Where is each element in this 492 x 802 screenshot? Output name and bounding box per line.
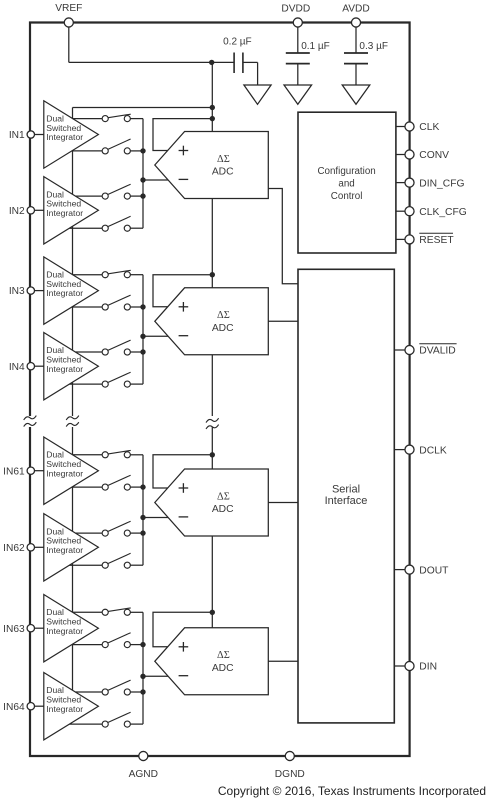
wire ADC2 + input from VREF (153, 275, 212, 307)
copyright note (218, 784, 486, 798)
wire switch output bus (ADC2) (142, 275, 144, 384)
wire config to pin RESET (396, 238, 410, 240)
svg-text:Integrator: Integrator (46, 288, 83, 298)
svg-text:ΔΣ: ΔΣ (217, 154, 230, 165)
svg-text:ADC: ADC (212, 663, 234, 674)
junction bus taps (ADC3) (140, 484, 145, 535)
wire pin IN4 to integrator (31, 365, 44, 367)
wire ADC1 + input from VREF (153, 119, 212, 151)
wire ADC4 + input from VREF (153, 612, 212, 647)
pin IN63 (3, 624, 34, 635)
wire switch output bus (ADC4) (142, 612, 144, 724)
svg-text:Integrator: Integrator (46, 704, 83, 714)
pin DCLK (405, 445, 447, 456)
pin DOUT (405, 565, 449, 576)
wire VREF distribution to integrators (73, 107, 213, 109)
switch S3b (open) (72, 475, 143, 490)
op-amp dual switched integrator IN3 (44, 257, 99, 324)
pin CONV (405, 150, 449, 161)
pin IN62 (3, 543, 34, 554)
pin RESET (405, 233, 454, 246)
svg-text:DVDD: DVDD (281, 3, 310, 14)
svg-text:IN64: IN64 (3, 702, 25, 713)
op-amp dual switched integrator IN62 (44, 514, 99, 581)
svg-text:Configuration: Configuration (317, 166, 375, 177)
ground (0.2 uF) (244, 85, 271, 104)
switch S2d (open) (69, 372, 143, 387)
wire serial interface to pin DCLK (394, 449, 409, 451)
pin VREF (55, 3, 82, 27)
wire pin IN64 to integrator (31, 705, 44, 707)
switch S2c (open) (75, 340, 143, 355)
svg-text:Integrator: Integrator (46, 545, 83, 555)
svg-text:ADC: ADC (212, 167, 234, 178)
switch S3c (open) (75, 521, 143, 536)
pin IN2 (9, 206, 35, 217)
block Configuration and Control (298, 112, 396, 253)
wire ADC3 output to serial interface (268, 502, 298, 504)
switch S3d (open) (69, 553, 143, 568)
pin IN1 (9, 130, 35, 141)
wire serial interface to pin DVALID (394, 349, 409, 351)
svg-text:ADC: ADC (212, 323, 234, 334)
wire pin IN2 to integrator (31, 209, 44, 211)
pin DVALID (405, 344, 457, 357)
switch S1d (open) (69, 216, 143, 231)
svg-text:DCLK: DCLK (419, 445, 447, 456)
op-amp U3 delta-sigma ADC (155, 469, 268, 536)
svg-text:Serial: Serial (332, 484, 360, 496)
svg-text:DOUT: DOUT (419, 565, 449, 576)
svg-text:RESET: RESET (419, 235, 454, 246)
pin AGND (129, 751, 158, 780)
junction bus taps (ADC2) (140, 304, 145, 354)
switch S4c (open) (75, 680, 143, 695)
op-amp dual switched integrator IN2 (44, 177, 99, 244)
wire pin IN3 to integrator (31, 290, 44, 292)
op-amp dual switched integrator IN4 (44, 333, 99, 400)
wire VREF pin drop (68, 23, 70, 63)
wire ADC2 - input from switch bus (143, 335, 168, 337)
wire pin IN61 to integrator (31, 470, 44, 472)
wire pin IN1 to integrator (31, 134, 44, 136)
break mark left border (24, 416, 37, 427)
wire integrator feed column (upper segment) (72, 108, 74, 417)
svg-text:Integrator: Integrator (46, 208, 83, 218)
svg-text:Integrator: Integrator (46, 626, 83, 636)
switch S2a (closed) (73, 270, 143, 277)
switch S3a (closed) (73, 450, 143, 457)
op-amp dual switched integrator IN1 (44, 101, 99, 168)
svg-text:and: and (338, 179, 354, 190)
wire VREF horizontal rail (69, 61, 234, 63)
wire integrator feed column (lower segment) (72, 427, 74, 690)
junction VREF rail / bypass cap (209, 60, 214, 65)
wire serial interface to pin DOUT (394, 569, 409, 571)
wire ADC4 - input from switch bus (143, 675, 168, 677)
op-amp dual switched integrator IN61 (44, 437, 99, 504)
wire switch output bus (ADC3) (142, 455, 144, 565)
op-amp U4 delta-sigma ADC (155, 628, 268, 695)
wire config to pin DIN_CFG (396, 182, 410, 184)
pin IN61 (3, 466, 34, 477)
break mark feed column (66, 416, 79, 427)
wire VREF center drop (upper segment) (211, 62, 213, 416)
svg-text:DIN_CFG: DIN_CFG (419, 178, 464, 189)
break mark VREF center drop (206, 418, 219, 429)
wire config to pin CLK (396, 126, 410, 128)
svg-text:ΔΣ: ΔΣ (217, 491, 230, 502)
junction VREF drop / ADC1 + wire (210, 116, 215, 121)
switch S4d (open) (69, 712, 143, 727)
svg-text:ΔΣ: ΔΣ (217, 310, 230, 321)
svg-text:VREF: VREF (55, 3, 82, 14)
wire ADC3 + input from VREF (153, 455, 212, 488)
wire VREF center drop (lower segment) (211, 427, 213, 628)
block Serial Interface (298, 269, 394, 723)
capacitor 0.2 &#181;F (223, 37, 257, 85)
svg-text:IN4: IN4 (9, 362, 25, 373)
pin DIN (405, 661, 437, 672)
op-amp U1 delta-sigma ADC (155, 132, 268, 199)
wire config to pin CLK_CFG (396, 210, 410, 212)
svg-text:Integrator: Integrator (46, 364, 83, 374)
junction VREF drop / ADC3 + wire (210, 452, 215, 457)
op-amp dual switched integrator IN64 (44, 673, 99, 740)
switch S4a (closed) (73, 608, 143, 615)
svg-text:ΔΣ: ΔΣ (217, 650, 230, 661)
junction VREF drop / ADC4 + wire (210, 610, 215, 615)
wire pin IN62 to integrator (31, 546, 44, 548)
capacitor 0.3 &#181;F (344, 41, 388, 85)
switch S2b (open) (72, 295, 143, 310)
svg-text:0.1 µF: 0.1 µF (301, 41, 330, 52)
junction bus taps (ADC1) (140, 148, 145, 199)
svg-text:IN2: IN2 (9, 206, 25, 217)
pin DVDD (281, 3, 310, 53)
capacitor 0.1 &#181;F (286, 41, 330, 85)
ground (0.3 uF) (342, 85, 370, 104)
svg-text:IN1: IN1 (9, 130, 25, 141)
junction bus taps (ADC4) (140, 642, 145, 695)
svg-text:CLK_CFG: CLK_CFG (419, 207, 467, 218)
pin DIN_CFG (405, 178, 465, 189)
junction VREF drop / ADC2 + wire (210, 272, 215, 277)
switch S1a (closed) (73, 114, 143, 121)
wire switch output bus (ADC1) (142, 119, 144, 229)
svg-text:ADC: ADC (212, 504, 234, 515)
switch S1b (open) (72, 139, 143, 154)
svg-text:0.2 µF: 0.2 µF (223, 37, 252, 48)
svg-text:DGND: DGND (275, 769, 305, 780)
device outline box (30, 23, 410, 757)
switch S1c (open) (75, 184, 143, 199)
ground (0.1 uF) (284, 85, 312, 104)
wire pin IN63 to integrator (31, 627, 44, 629)
svg-text:Control: Control (331, 191, 363, 202)
svg-text:IN61: IN61 (3, 466, 25, 477)
wire serial interface to pin DIN (394, 665, 409, 667)
wire ADC3 - input from switch bus (143, 517, 168, 519)
junction VREF rail to distribution (210, 105, 215, 110)
svg-text:AGND: AGND (129, 769, 158, 780)
svg-text:AVDD: AVDD (342, 3, 370, 14)
op-amp U2 delta-sigma ADC (155, 288, 268, 355)
pin IN4 (9, 362, 35, 373)
wire ADC2 output to serial interface (268, 320, 298, 322)
svg-text:IN3: IN3 (9, 286, 25, 297)
switch S4b (open) (72, 633, 143, 648)
svg-text:Integrator: Integrator (46, 132, 83, 142)
pin CLK (405, 122, 440, 133)
svg-text:DIN: DIN (419, 662, 437, 673)
svg-text:IN62: IN62 (3, 543, 25, 554)
wire ADC1 output to serial interface (268, 189, 298, 284)
pin IN3 (9, 286, 35, 297)
svg-text:Interface: Interface (325, 495, 368, 507)
svg-text:DVALID: DVALID (419, 346, 455, 357)
svg-text:CLK: CLK (419, 122, 439, 133)
wire ADC1 - input from switch bus (143, 179, 168, 181)
pin CLK_CFG (405, 207, 467, 218)
svg-text:CONV: CONV (419, 150, 449, 161)
svg-text:Copyright © 2016, Texas Instru: Copyright © 2016, Texas Instruments Inco… (218, 784, 486, 798)
wire config to pin CONV (396, 154, 410, 156)
wire ADC4 output to serial interface (268, 660, 298, 662)
svg-text:0.3 µF: 0.3 µF (359, 41, 388, 52)
pin IN64 (3, 702, 34, 713)
svg-text:Integrator: Integrator (46, 468, 83, 478)
svg-text:IN63: IN63 (3, 624, 25, 635)
op-amp dual switched integrator IN63 (44, 595, 99, 662)
pin AVDD (342, 3, 370, 53)
pin DGND (275, 751, 305, 780)
